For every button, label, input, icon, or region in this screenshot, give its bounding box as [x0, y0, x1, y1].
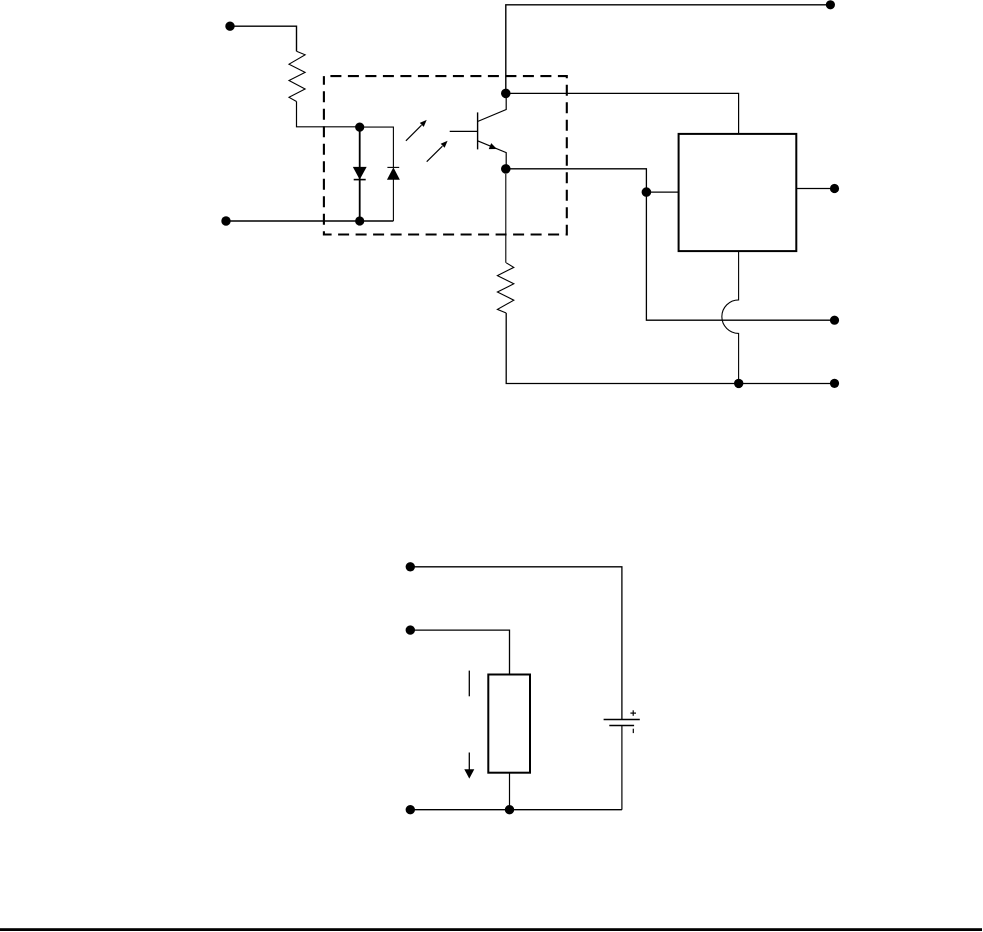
wire T2 to N2 to D2 branch — [228, 220, 393, 222]
wire T8 to R3 top — [412, 630, 510, 674]
wire LED branch left — [359, 127, 361, 221]
node N6 — [734, 379, 743, 388]
wire R3 bottom to N7 — [509, 773, 511, 810]
wire U2 bottom pin with hop over N4-T5 wire — [722, 251, 739, 383]
terminal T5 — [830, 316, 839, 325]
terminal T3 — [826, 0, 835, 9]
terminal T4 — [830, 184, 839, 193]
wire N3 up and right to T3 — [506, 5, 831, 94]
wire LED branch right — [360, 127, 394, 221]
page footer rule — [0, 928, 982, 931]
optocoupler U1 dashed body — [324, 76, 567, 234]
load resistor R3 — [488, 675, 530, 773]
wire T1 to R1 top — [232, 26, 297, 51]
wire T9 to battery bottom — [412, 809, 622, 811]
current arrow — [464, 671, 474, 779]
wire R1 bottom to node N1 — [297, 102, 360, 127]
LED D1 — [354, 167, 367, 179]
node N1 — [355, 123, 364, 132]
light arrow 2 — [427, 141, 448, 162]
node N7 — [505, 805, 514, 814]
wire battery bottom down — [621, 726, 623, 810]
terminal T8 — [406, 625, 415, 634]
wire U2 right pin to T4 — [796, 188, 834, 190]
resistor R1 — [289, 51, 305, 101]
node N2 — [355, 216, 364, 225]
node N5 — [642, 187, 652, 197]
phototransistor Q1 — [450, 93, 507, 168]
wire N3 to U2 top pin — [506, 93, 739, 133]
wire R2 bottom right to T6 — [506, 313, 834, 384]
resistor R2 — [497, 263, 513, 313]
wire N4 right down to T5 — [506, 169, 835, 320]
light arrow 1 — [406, 120, 427, 141]
node N4 emitter — [501, 164, 511, 174]
block U2 — [679, 134, 797, 251]
battery B1 — [604, 710, 640, 733]
LED D2 — [387, 167, 399, 179]
wire T7 to battery top — [412, 567, 622, 720]
terminal T9 — [406, 805, 415, 814]
wire emitter down to R2 — [505, 174, 507, 263]
terminal T1 — [225, 22, 234, 31]
node N3 collector — [501, 89, 511, 99]
terminal T6 — [830, 379, 839, 388]
terminal T7 — [406, 562, 415, 571]
terminal T2 — [221, 216, 230, 225]
wire N5 stub to U2 left pin — [646, 191, 678, 193]
